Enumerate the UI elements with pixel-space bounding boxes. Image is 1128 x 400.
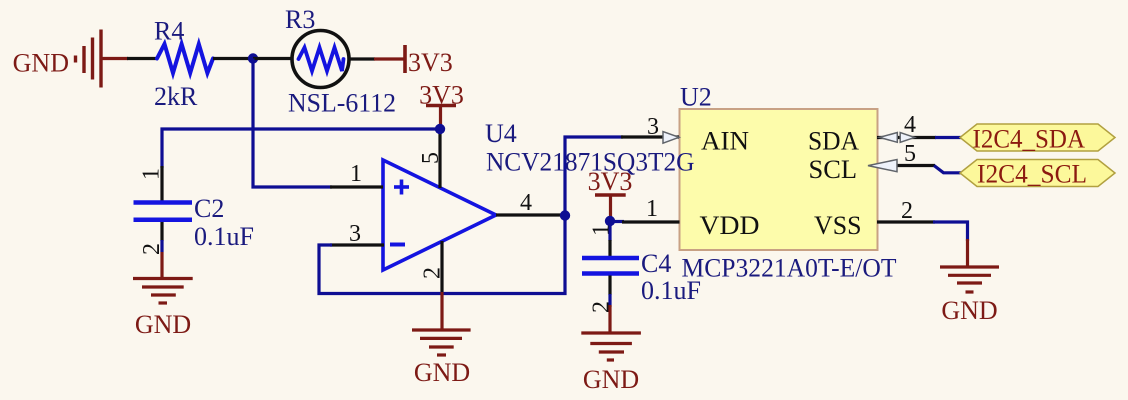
svg-text:3V3: 3V3	[408, 48, 453, 77]
wire SCL net	[877, 164, 935, 167]
wire GND1 to R4 pin	[127, 57, 158, 60]
node VDD/C4	[605, 216, 615, 226]
svg-text:1: 1	[139, 168, 165, 180]
node 3V3/pin5	[435, 124, 445, 134]
node output	[560, 210, 570, 220]
svg-text:VSS: VSS	[814, 211, 862, 240]
wire feedback loop and output net	[319, 137, 623, 294]
port I2C4_SDA	[960, 124, 1115, 154]
wire GND1 stub	[103, 57, 129, 60]
ground GND3 (op-amp)	[412, 292, 471, 387]
U4 pin 3	[330, 243, 384, 246]
port I2C4_SCL	[960, 160, 1115, 189]
svg-text:5: 5	[904, 141, 916, 167]
wire 3V3 rail to C2 top (horizontal)	[162, 129, 440, 168]
U4 pin 5	[438, 129, 441, 188]
capacitor C2	[134, 166, 193, 252]
svg-text:3: 3	[647, 114, 659, 140]
ground GND4 (C4)	[581, 305, 641, 394]
U4 pin 4 output	[496, 213, 562, 216]
svg-text:I2C4_SDA: I2C4_SDA	[973, 125, 1086, 154]
svg-text:SCL: SCL	[809, 155, 858, 184]
AIN arrow	[663, 132, 679, 144]
wire VDD pin	[610, 220, 624, 223]
photoresistor R3	[292, 31, 375, 88]
svg-text:VDD: VDD	[700, 211, 760, 240]
svg-text:R3: R3	[285, 5, 315, 34]
wire junction down to pin1 level and right	[253, 59, 332, 188]
svg-text:GND: GND	[13, 49, 69, 78]
svg-text:0.1uF: 0.1uF	[194, 222, 254, 251]
svg-text:C4: C4	[641, 249, 671, 278]
svg-text:GND: GND	[414, 358, 470, 387]
wire AIN pin	[621, 135, 679, 138]
ground GND5 (VSS)	[940, 239, 999, 325]
U2 body	[680, 109, 878, 250]
svg-text:MCP3221A0T-E/OT: MCP3221A0T-E/OT	[682, 254, 897, 283]
svg-text:U2: U2	[680, 83, 712, 112]
svg-text:GND: GND	[583, 365, 639, 394]
svg-text:NSL-6112: NSL-6112	[288, 89, 396, 118]
ground GND1 (left, rotated)	[76, 30, 102, 88]
svg-text:GND: GND	[135, 310, 191, 339]
capacitor C4	[582, 221, 639, 307]
svg-text:1: 1	[589, 224, 615, 236]
svg-text:4: 4	[520, 190, 532, 216]
svg-text:I2C4_SCL: I2C4_SCL	[977, 160, 1087, 189]
power 3V3 #1	[374, 45, 453, 77]
SDA bidirectional arrows	[880, 133, 898, 143]
svg-text:C2: C2	[194, 194, 224, 223]
svg-text:AIN: AIN	[701, 127, 749, 156]
wire VSS net	[877, 220, 935, 223]
svg-text:0.1uF: 0.1uF	[641, 276, 701, 305]
svg-text:1: 1	[350, 161, 362, 187]
svg-text:2kR: 2kR	[154, 82, 198, 111]
svg-text:4: 4	[904, 112, 916, 138]
op-amp U4	[383, 160, 496, 270]
resistor R4	[157, 44, 250, 73]
SCL arrow	[868, 160, 897, 172]
ground GND2 (C2)	[133, 252, 193, 339]
wire junction to R3	[253, 57, 293, 60]
U4 pin 1	[330, 185, 383, 188]
svg-text:2: 2	[420, 267, 446, 279]
power 3V3 #2 (op-amp)	[419, 81, 464, 128]
svg-text:U4: U4	[485, 119, 517, 148]
svg-text:GND: GND	[941, 296, 997, 325]
svg-text:2: 2	[901, 198, 913, 224]
U4 pin 2	[440, 241, 443, 294]
wire SDA net	[877, 136, 936, 139]
power 3V3 #3 (VDD)	[588, 167, 633, 219]
node junction R4/R3	[248, 53, 258, 63]
svg-text:5: 5	[418, 152, 444, 164]
svg-text:R4: R4	[154, 17, 184, 46]
svg-text:3: 3	[349, 221, 361, 247]
svg-text:3V3: 3V3	[588, 167, 633, 196]
svg-text:SDA: SDA	[808, 127, 859, 156]
svg-text:1: 1	[646, 196, 658, 222]
